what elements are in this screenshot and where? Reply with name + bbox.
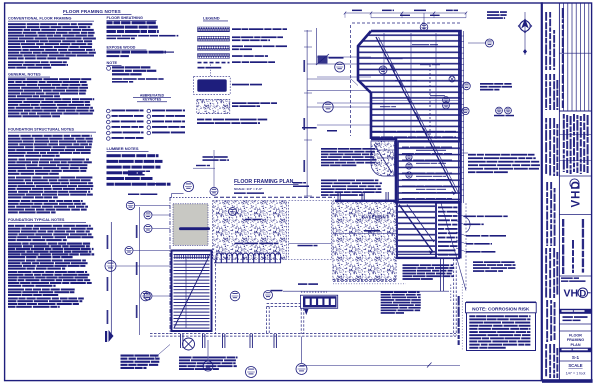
svg-text:FLOOR: FLOOR <box>569 334 582 338</box>
svg-text:CONVENTIONAL FLOOR FRAMING: CONVENTIONAL FLOOR FRAMING <box>8 17 71 21</box>
lower section framing rect <box>398 141 461 203</box>
bottom edge line with tick <box>300 364 460 366</box>
plan dates <box>563 316 573 318</box>
text block bottom left <box>121 355 134 357</box>
firm info rotated text column <box>545 12 547 21</box>
diagonal label marks <box>391 64 396 72</box>
second notes block <box>321 180 337 182</box>
NOTE CORROSION RISK box <box>467 302 536 351</box>
vertical dim text left of main plan stair <box>139 207 141 335</box>
svg-text:SCALE: SCALE <box>568 363 582 368</box>
svg-text:GENERAL NOTES: GENERAL NOTES <box>8 73 41 77</box>
leader labels left-mid of plan <box>128 171 146 173</box>
posts along bottom wall <box>180 334 182 348</box>
svg-text:BASEMENT: BASEMENT <box>362 214 389 219</box>
bottom right notes <box>473 261 483 263</box>
bubbles inside plan right <box>443 97 450 104</box>
svg-text:EXPOSE WOOD: EXPOSE WOOD <box>107 46 136 50</box>
project info text top right <box>487 11 499 13</box>
masonry arc row <box>216 253 281 263</box>
white room dashed <box>289 201 332 260</box>
legend extra lines <box>197 119 204 121</box>
svg-text:NOTE: NOTE <box>107 61 118 65</box>
right mid notes block <box>468 154 476 156</box>
svg-text:1/4" = 1 foot: 1/4" = 1 foot <box>566 371 586 375</box>
posts on basement top wall <box>337 192 339 200</box>
section cut symbol <box>318 56 328 64</box>
main plan top wall (thick) right section <box>396 201 461 203</box>
grid bubble with leader <box>184 182 194 192</box>
left dimension line of upper plan <box>306 30 308 196</box>
notes block left of plan <box>321 148 337 150</box>
svg-text:FOUNDATION TYPICAL NOTES: FOUNDATION TYPICAL NOTES <box>8 218 65 222</box>
text rows above mid wall <box>372 131 382 133</box>
dashed deck outline above plan <box>352 22 460 24</box>
revision table columns <box>563 3 565 111</box>
svg-text:FLOOR FRAMING NOTES: FLOOR FRAMING NOTES <box>63 9 121 14</box>
svg-text:LUMBER NOTES: LUMBER NOTES <box>107 146 139 151</box>
upper floor framing plan: joist hatch fill <box>358 31 461 203</box>
notes block deck right <box>381 291 394 293</box>
tiny marks inside upper plan hatch <box>385 58 403 59</box>
joist direction diagonal <box>376 37 456 193</box>
patio dashed outline <box>214 260 216 334</box>
vertical dashed joist break <box>429 65 431 135</box>
stipple area 1 <box>213 201 287 260</box>
basement stipple area <box>333 200 396 280</box>
deck edge line <box>283 290 449 292</box>
grid bubbles lower plan <box>141 291 151 301</box>
job name bar <box>559 309 591 314</box>
OPTIONAL DECK label <box>298 283 307 285</box>
leader to NOTE box <box>450 285 452 302</box>
grid bubble top of plan <box>213 150 215 188</box>
svg-text:KEYNOTES: KEYNOTES <box>143 97 162 101</box>
gray slab <box>173 204 208 246</box>
svg-text:LEGEND: LEGEND <box>203 16 220 21</box>
drawn-by cell <box>561 277 573 279</box>
upper floor framing plan: outer wall outline <box>358 31 461 203</box>
keynote symbol list <box>107 109 111 113</box>
text block bottom center <box>179 357 192 359</box>
text marks inside lower framing section <box>402 147 409 148</box>
grid bubbles left of upper plan <box>307 63 371 65</box>
thick bottom bar under title block <box>542 379 593 383</box>
left wall dashed <box>169 197 171 334</box>
legend stipple swatch <box>197 99 230 113</box>
svg-text:D: D <box>579 288 586 299</box>
svg-text:FLOOR FRAMING PLAN: FLOOR FRAMING PLAN <box>234 179 294 185</box>
interior beam lines <box>383 33 385 139</box>
address rotated block <box>563 114 565 119</box>
rotated dim texts <box>107 235 109 249</box>
north arrow <box>524 12 526 55</box>
main plan top wall <box>170 197 212 199</box>
svg-text:FOUNDATION STRUCTURAL NOTES: FOUNDATION STRUCTURAL NOTES <box>8 128 75 132</box>
legend dashed line swatch <box>198 62 230 64</box>
dimension end arrow <box>109 330 114 342</box>
bottom wall dashed double <box>150 333 456 335</box>
grid bubbles left <box>126 201 134 209</box>
left dimension line <box>110 222 112 334</box>
paired symbols <box>496 107 503 114</box>
grid bubble right <box>468 42 486 44</box>
title block divider <box>541 2 543 381</box>
svg-text:FLOOR SHEATHING: FLOOR SHEATHING <box>107 16 143 20</box>
wall studs below stair <box>440 259 442 292</box>
basement bottom dashed double line <box>333 278 396 280</box>
beam symbol in slab <box>179 227 210 230</box>
notes below interior stair <box>403 264 419 266</box>
svg-text:S-1: S-1 <box>572 355 580 360</box>
leader note above plan <box>203 156 214 158</box>
svg-text:VHD: VHD <box>571 180 583 207</box>
svg-text:NOTE: CORROSION RISK: NOTE: CORROSION RISK <box>472 307 530 312</box>
legend hatch swatches <box>198 27 230 32</box>
svg-text:VH: VH <box>564 288 579 300</box>
curved stair landing (stippled) <box>371 141 395 176</box>
dashed line left of plan <box>350 25 352 136</box>
grid bubble above plan <box>423 13 425 31</box>
legend solid beam swatch <box>194 77 231 95</box>
stacked keynote bubbles in lower section <box>406 154 412 160</box>
dim lines crossing left of upper plan <box>317 56 371 58</box>
bubble at right edge <box>463 82 471 90</box>
nailing note right <box>480 83 494 85</box>
right edge joist hangers <box>461 35 465 37</box>
interior stair hatched <box>397 203 459 258</box>
small rotated marks <box>562 219 564 227</box>
svg-text:PLAN: PLAN <box>570 343 580 347</box>
rotated dim text along right wall of plan <box>458 296 460 306</box>
svg-text:FRAMING: FRAMING <box>567 338 584 342</box>
right side labels with leaders <box>464 216 476 218</box>
title block inner boundary <box>558 3 560 381</box>
top dimension lines <box>345 12 466 14</box>
window/vent detail <box>301 295 338 308</box>
exterior stair <box>172 251 212 332</box>
main plan right wall dashed <box>453 259 455 336</box>
svg-text:SCALE: 1/4" = 1'-0": SCALE: 1/4" = 1'-0" <box>234 187 263 191</box>
